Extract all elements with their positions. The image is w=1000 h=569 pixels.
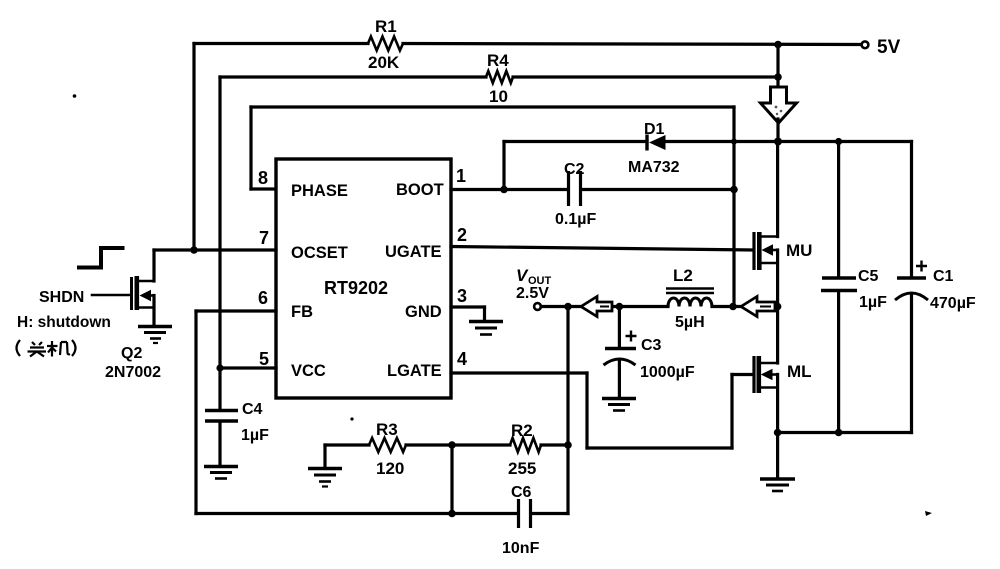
svg-text:SHDN: SHDN (39, 289, 84, 306)
wire: VCC pin 5 (220, 366, 276, 369)
svg-text:MA732: MA732 (628, 159, 680, 176)
capacitor C2 0.1uF (555, 161, 596, 228)
wire: VOUT vertical down (566, 307, 569, 514)
pin 4 label (457, 349, 467, 369)
pin OCSET label (291, 244, 348, 262)
capacitor C1 470uF (895, 142, 976, 433)
svg-text:2.5V: 2.5V (516, 285, 549, 302)
pin VCC label (291, 362, 326, 380)
svg-text:C6: C6 (511, 484, 532, 501)
svg-text:5V: 5V (877, 37, 901, 58)
junction: C2/PHASE (730, 186, 738, 194)
svg-text:8: 8 (258, 168, 268, 188)
capacitor C3 1000uF (604, 307, 695, 398)
wire: UGATE pin 2 to MU gate (451, 247, 753, 251)
svg-text:255: 255 (508, 459, 536, 478)
wire: arrow tip to D1 rail (776, 119, 779, 142)
capacitor C4 1uF (205, 368, 269, 465)
resistor R2 255 (508, 421, 541, 478)
junction: FB rail to divider tap (448, 510, 456, 518)
svg-text:C2: C2 (564, 161, 585, 178)
wire: OCSET pin 7 (154, 248, 276, 251)
svg-text:10nF: 10nF (502, 540, 540, 557)
wire: bottom FB rail (196, 512, 517, 515)
resistor R3 120 (369, 420, 406, 478)
diode D1 MA732 (628, 121, 680, 176)
wire: 5V vertical above arrow (776, 45, 779, 88)
svg-text:C4: C4 (242, 401, 263, 418)
wire: LGATE rise to ML gate (730, 375, 733, 449)
svg-text:4: 4 (457, 349, 467, 369)
junction: 5V vertical on D1 rail (774, 138, 782, 146)
transistor MU (754, 232, 812, 270)
ground: IC GND pin (469, 322, 503, 335)
svg-text:1µF: 1µF (241, 427, 269, 444)
resistor R4 (486, 51, 513, 83)
pin BOOT label (396, 181, 444, 199)
wire: GND pin 3 (451, 307, 485, 320)
wire: LGATE vertical down (585, 373, 588, 448)
pin 7 label (259, 228, 269, 248)
wire: R4 rail right segment (513, 75, 778, 78)
wire: divider tap vertical (450, 445, 453, 514)
junction: R4 to 5V vertical (774, 73, 782, 81)
junction: R3/R2 node (448, 441, 456, 449)
junction: 5V rail to arrow (774, 41, 782, 49)
wire: VOUT row (541, 305, 668, 308)
capacitor C6 10nF (502, 484, 540, 557)
svg-text:BOOT: BOOT (396, 181, 444, 199)
pin LGATE label (387, 362, 442, 380)
flow arrow left (switch node) (741, 297, 775, 317)
wire: BOOT pin 1 to C2 (451, 188, 567, 191)
svg-text:R4: R4 (487, 51, 509, 70)
svg-text:5µH: 5µH (675, 314, 705, 331)
transistor Q2 2N7002 (105, 276, 161, 381)
svg-text:10: 10 (489, 87, 508, 106)
svg-text:1000µF: 1000µF (640, 364, 695, 381)
wire: ML source to ground rail (776, 375, 779, 479)
junction: VCC node (216, 364, 223, 371)
svg-text:C1: C1 (933, 268, 954, 285)
wire: node to R2 (452, 443, 510, 446)
wire: D1 rail left (504, 140, 647, 143)
svg-text:D1: D1 (644, 121, 665, 138)
text: chinese shutdown note (17, 340, 76, 357)
wire: R1 vertical drop to OCSET (192, 44, 195, 251)
speck bottom-right (925, 511, 932, 516)
svg-text:2: 2 (457, 225, 467, 245)
wire: SHDN to Q2 gate (92, 294, 130, 297)
junction: switch node main vertical (774, 303, 782, 311)
node SHDN label (39, 289, 84, 306)
pin 6 label (258, 288, 268, 308)
wire: R4 rail left segment (220, 75, 486, 78)
wire: bottom ground rail (778, 431, 912, 434)
wire: R4 vertical to VCC (218, 77, 221, 368)
ground: C3 (602, 399, 636, 411)
svg-text:UGATE: UGATE (385, 243, 442, 261)
wire: switch node to ML drain (776, 307, 779, 364)
pin UGATE label (385, 243, 442, 261)
svg-text:R2: R2 (511, 421, 533, 440)
wire: MU source to switch node (776, 250, 779, 307)
svg-text:0.1µF: 0.1µF (555, 211, 596, 228)
junction: R1 on OCSET (190, 246, 198, 254)
svg-text:1µF: 1µF (859, 294, 887, 311)
step input symbol (77, 248, 125, 268)
capacitor C5 1uF (821, 142, 887, 433)
svg-text:GND: GND (405, 303, 442, 321)
pin 2 label (457, 225, 467, 245)
wire: R3 to node (406, 443, 452, 446)
resistor R1 20K (368, 17, 403, 72)
wire: PHASE vertical at x=734 (732, 107, 735, 307)
svg-text:LGATE: LGATE (387, 362, 442, 380)
svg-text:ML: ML (787, 362, 812, 381)
svg-text:MU: MU (786, 241, 812, 260)
junction: C5 top on D1 rail (835, 138, 842, 145)
svg-text:FB: FB (291, 303, 313, 321)
svg-text:1: 1 (456, 166, 466, 186)
svg-text:C5: C5 (858, 268, 879, 285)
pin PHASE label (291, 182, 348, 200)
svg-text:RT9202: RT9202 (324, 278, 388, 298)
text: H shutdown note (17, 314, 111, 331)
junction: R2 on VOUT vertical (564, 441, 572, 449)
wire: D1 rail right to C1 corner (665, 140, 912, 143)
junction: C3 node (616, 303, 624, 311)
op-amp U1 RT9202 IC body (276, 159, 451, 398)
pin 1 label (456, 166, 466, 186)
wire: PHASE net rail (node 10) (251, 87, 734, 107)
wire: R2 to VOUT vertical (541, 443, 568, 446)
svg-text:5: 5 (259, 349, 269, 369)
ground: main (760, 479, 795, 491)
svg-text:H: shutdown: H: shutdown (17, 314, 111, 331)
transistor ML (754, 356, 812, 393)
node: 5V terminal (862, 37, 901, 58)
junction: ground rail at main vertical (774, 429, 782, 437)
svg-text:2N7002: 2N7002 (105, 364, 161, 381)
wire: 5V rail right segment (403, 44, 862, 45)
wire: L2 to switch node (712, 305, 778, 308)
node VOUT 2.5V terminal (516, 266, 552, 310)
ground: R3 (308, 469, 342, 487)
speck mid (350, 417, 353, 420)
ground: Q2 source (138, 327, 172, 344)
wire: OCSET drop to Q2 drain (152, 250, 155, 281)
svg-text:3: 3 (457, 286, 467, 306)
svg-text:L2: L2 (673, 266, 693, 285)
junction: phase vertical crossing blob (731, 139, 737, 145)
svg-text:20K: 20K (368, 53, 400, 72)
wire: D1 branch vertical (502, 142, 505, 190)
pin GND label (405, 303, 442, 321)
junction: BOOT to D1 branch (500, 186, 508, 194)
wire: LGATE pin 4 (451, 371, 587, 374)
svg-text:C3: C3 (641, 337, 662, 354)
junction: VOUT feedback tap (564, 303, 572, 311)
svg-text:6: 6 (258, 288, 268, 308)
wire: PHASE rail left drop to pin 8 (251, 107, 276, 189)
pin FB label (291, 303, 313, 321)
wire: C2 to PHASE vertical (582, 188, 734, 191)
wire: FB vertical to bottom (194, 311, 197, 514)
svg-text:470µF: 470µF (930, 295, 976, 312)
svg-text:Q2: Q2 (121, 345, 142, 362)
svg-text:R1: R1 (375, 17, 397, 36)
svg-text:7: 7 (259, 228, 269, 248)
wire: ML gate stub (732, 373, 753, 376)
junction: phase vertical to switch node (729, 303, 737, 311)
inductor L2 5uH (666, 266, 714, 331)
pin 8 label (258, 168, 268, 188)
svg-text:OCSET: OCSET (291, 244, 348, 262)
wire: LGATE bottom run (587, 446, 732, 449)
pin 5 label (259, 349, 269, 369)
svg-text:120: 120 (376, 459, 404, 478)
pin 3 label (457, 286, 467, 306)
svg-text:PHASE: PHASE (291, 182, 348, 200)
junction: C5 bottom (835, 429, 843, 437)
flow arrow left (output) (581, 297, 612, 317)
wire: C6 to VOUT vertical (532, 512, 568, 515)
ground: C4 (204, 467, 238, 479)
speck top-left (73, 94, 77, 98)
wire: FB pin 6 (196, 309, 276, 312)
wire: main vertical 5V to MU drain (776, 142, 779, 237)
power flow arrow down (761, 87, 797, 123)
svg-text:VCC: VCC (291, 362, 326, 380)
svg-text:R3: R3 (376, 420, 398, 439)
wire: 5V rail left segment (194, 42, 368, 45)
wire: R3 ground lead (325, 445, 369, 467)
